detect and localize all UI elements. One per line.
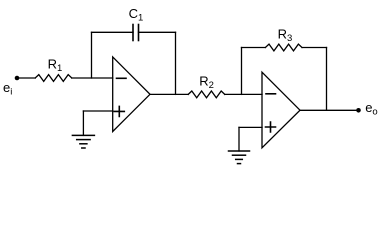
wire U1 non-inverting input to ground <box>83 110 112 112</box>
wire C1 top left <box>92 31 134 33</box>
capacitor C1 right plate <box>138 25 140 41</box>
wire e_i dot to R1 <box>17 77 35 79</box>
node e_i terminal dot <box>15 76 20 81</box>
wire R1 to op-amp U1 inverting input (junction at x=91.5) <box>72 77 113 79</box>
wire R2 to op-amp U2 inverting input (junction at x=241.5) <box>225 93 262 95</box>
op-amp U2 triangle <box>262 72 300 148</box>
wire U2 non-inverting input to ground <box>239 126 262 128</box>
op-amp U1 plus sign <box>114 106 124 116</box>
wire U2 output to e_o <box>300 109 359 111</box>
ground 1 <box>72 135 94 148</box>
capacitor C1 left plate <box>132 25 134 41</box>
resistor R1 <box>35 75 72 82</box>
ground 2 <box>229 151 250 164</box>
wire C1 right leg down to U1 output <box>175 32 177 94</box>
node e_o terminal dot <box>356 108 361 113</box>
wire R3 top left <box>242 47 266 49</box>
op-amp U2 minus sign <box>266 93 276 95</box>
op-amp U1 minus sign <box>117 77 127 79</box>
op-amp U2 plus sign <box>266 122 276 132</box>
wire down to ground 2 <box>238 127 240 151</box>
resistor R2 <box>188 91 225 98</box>
wire down to ground 1 <box>82 111 84 135</box>
wire U1 output to R2 <box>150 93 188 95</box>
wire R3 right leg down to U2 output <box>326 48 328 111</box>
op-amp U1 triangle <box>113 57 150 132</box>
resistor R3 feedback: left tap wire up <box>241 48 243 95</box>
resistor R3 <box>265 44 302 51</box>
wire C1 top right <box>139 31 176 33</box>
wire R3 top right <box>302 47 327 49</box>
capacitor C1 feedback: left tap wire up <box>91 32 93 78</box>
